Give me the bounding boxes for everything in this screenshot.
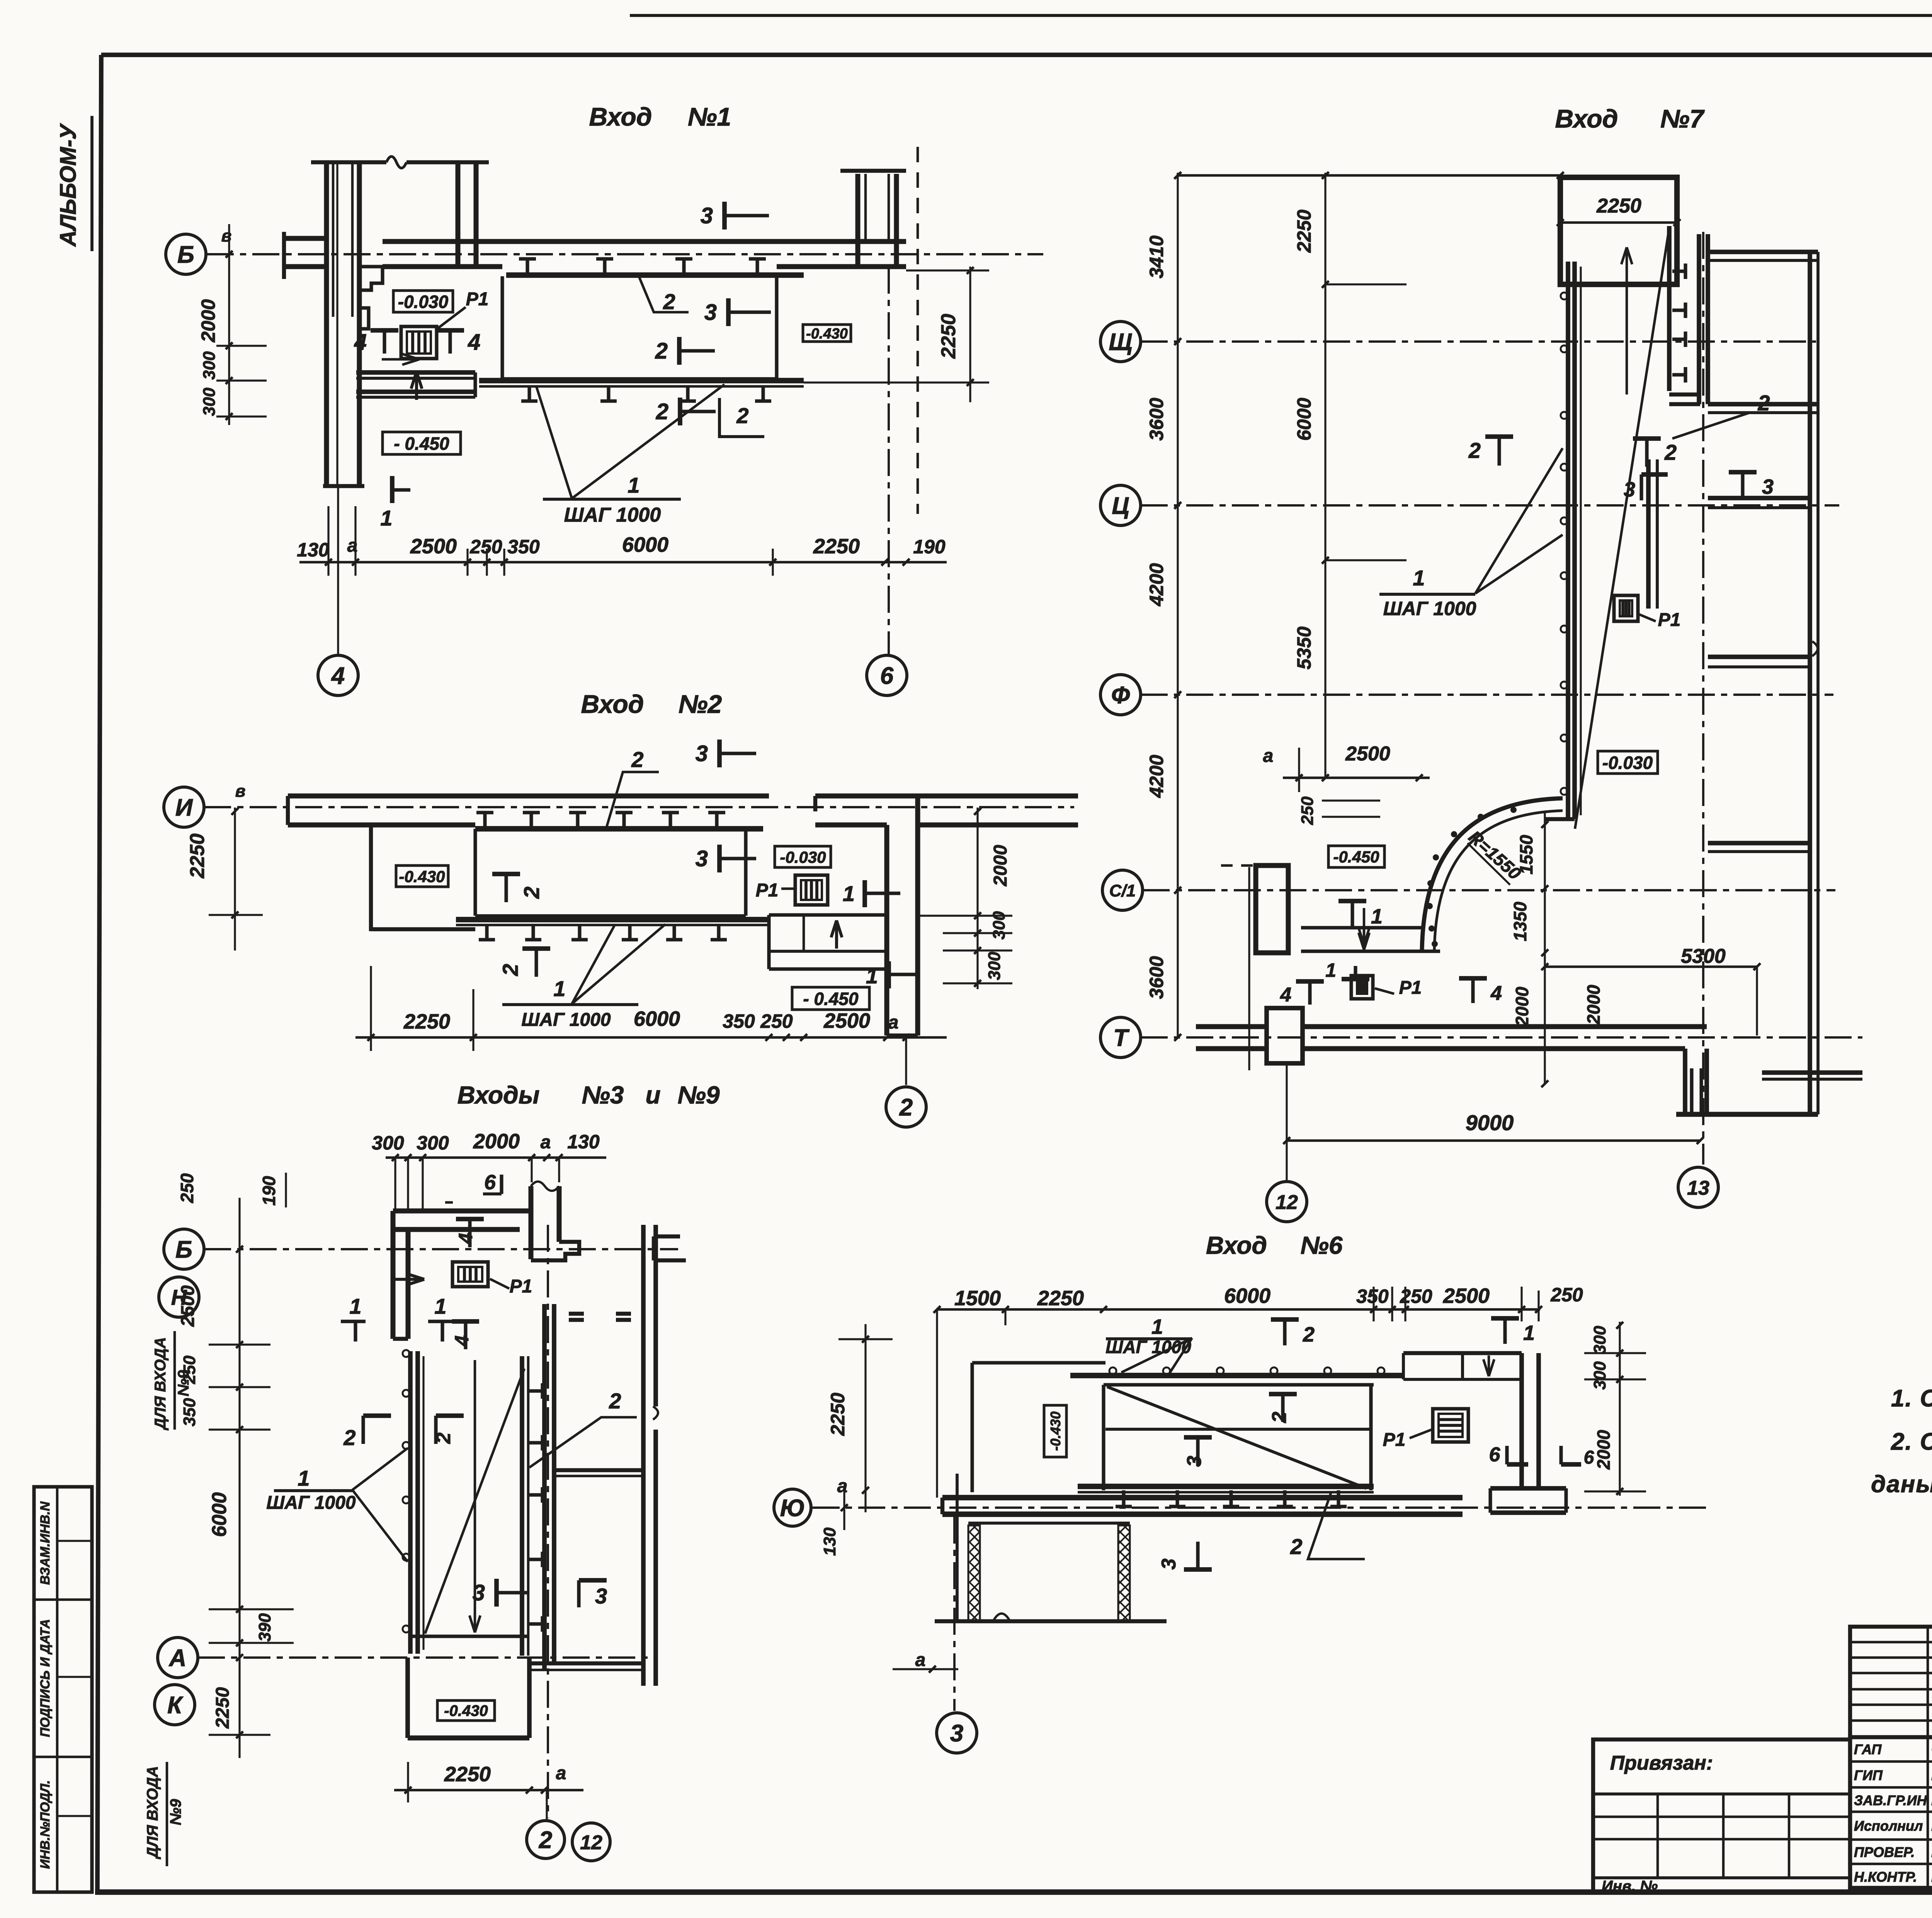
svg-text:2250: 2250	[213, 1687, 233, 1729]
svg-text:2: 2	[899, 1094, 913, 1121]
section 4 and P1 at bottom (Вход 7)	[1308, 981, 1311, 1005]
down arrow (Вход 7)	[1363, 908, 1366, 945]
axis 13 vertical (Вход 7)	[1702, 232, 1704, 1165]
frame border	[101, 53, 1932, 57]
svg-text:12: 12	[1276, 1191, 1298, 1214]
svg-text:1: 1	[866, 964, 878, 988]
svg-text:-0.030: -0.030	[1602, 753, 1653, 773]
section mark 1 lower (Вход 1)	[390, 476, 395, 503]
porch slab (Вход 2)	[473, 829, 477, 916]
grid circle Б	[166, 234, 206, 274]
svg-text:ГАП: ГАП	[1854, 1741, 1882, 1757]
svg-text:350: 350	[723, 1010, 755, 1032]
wall stub horizontals (Входы 3/9)	[554, 1468, 643, 1472]
svg-text:250: 250	[177, 1173, 197, 1203]
svg-text:2000: 2000	[1512, 986, 1532, 1027]
svg-text:2250: 2250	[1293, 209, 1315, 253]
axis Б line (Входы 3/9)	[204, 1248, 678, 1250]
svg-text:3: 3	[1762, 475, 1774, 498]
svg-text:Вход: Вход	[1206, 1231, 1267, 1259]
left beam (Входы 3/9)	[408, 1351, 413, 1654]
svg-text:2: 2	[1290, 1534, 1302, 1559]
axis Б line	[207, 253, 1043, 255]
svg-text:2000: 2000	[197, 299, 219, 342]
svg-text:-0.450: -0.450	[1333, 848, 1379, 866]
dim 9000 (Вход 7)	[1287, 1139, 1700, 1142]
svg-text:Исполнил: Исполнил	[1854, 1818, 1923, 1834]
entrance arrow right (Вход 1)	[382, 358, 419, 361]
svg-text:2: 2	[736, 403, 748, 428]
wall along Ю (Вход 6)	[942, 1495, 1463, 1500]
svg-text:2000: 2000	[1583, 985, 1604, 1025]
svg-text:a: a	[347, 536, 358, 556]
svg-text:4: 4	[455, 1233, 476, 1244]
svg-text:4: 4	[468, 330, 480, 355]
svg-text:1: 1	[349, 1294, 361, 1318]
level box -0.030 (Вход 7)	[1598, 751, 1658, 774]
svg-text:2500: 2500	[1443, 1284, 1490, 1308]
svg-text:2: 2	[539, 1827, 552, 1853]
svg-text:Р1: Р1	[1383, 1430, 1406, 1450]
right landing (Вход 6)	[1403, 1351, 1522, 1355]
svg-text:5350: 5350	[1293, 626, 1315, 669]
section mark 2 lower-left (Вход 2)	[534, 949, 538, 977]
canopy (Вход 7)	[1560, 177, 1677, 284]
svg-text:2: 2	[1303, 1323, 1315, 1346]
svg-text:a: a	[837, 1476, 848, 1496]
svg-text:№9: №9	[678, 1081, 720, 1109]
diagonal (Вход 7)	[1575, 228, 1669, 829]
svg-text:2: 2	[343, 1425, 355, 1450]
svg-text:ИНВ.№ПОДЛ.: ИНВ.№ПОДЛ.	[38, 1780, 53, 1869]
section mark 3 upper (Вход 2)	[717, 740, 722, 767]
svg-text:130: 130	[820, 1527, 839, 1556]
svg-text:2: 2	[631, 747, 643, 772]
right beam (Вход 7)	[1667, 226, 1672, 391]
svg-text:13: 13	[1687, 1177, 1709, 1199]
grid circles 2 and 12 (Входы 3/9)	[546, 1790, 548, 1821]
svg-text:a: a	[541, 1132, 551, 1153]
section mark 1 right (Вход 2)	[862, 880, 867, 907]
level box -0.430 vertical (Вход 6)	[1044, 1405, 1066, 1457]
svg-text:Ю: Ю	[780, 1495, 805, 1522]
svg-text:2. Сечение 6-6 и спецификация: 2. Сечение 6-6 и спецификация элементов …	[1891, 1428, 1932, 1455]
grid circle 2 (Вход 2)	[905, 1037, 907, 1085]
upper thin wall line (Вход 6)	[972, 1361, 1105, 1364]
bottom dimension line (Вход 2)	[355, 1036, 947, 1039]
svg-text:2: 2	[656, 399, 668, 424]
svg-text:4200: 4200	[1146, 563, 1167, 606]
svg-text:-0.430: -0.430	[444, 1702, 488, 1719]
axis Ф line	[1141, 694, 1833, 696]
svg-text:3: 3	[595, 1584, 607, 1608]
right T-wall (Вход 6)	[1519, 1353, 1524, 1488]
svg-text:1: 1	[843, 881, 855, 906]
svg-text:ШАГ 1000: ШАГ 1000	[521, 1010, 611, 1030]
svg-text:1: 1	[1523, 1321, 1535, 1345]
lower beam (Вход 2)	[456, 917, 769, 922]
svg-text:Р1: Р1	[756, 880, 779, 901]
grate P1 (Входы 3/9)	[452, 1262, 488, 1287]
svg-text:1: 1	[380, 506, 392, 530]
right dim chain (Вход 2)	[976, 808, 978, 989]
title block привязан box	[1593, 1739, 1850, 1892]
svg-text:Вход: Вход	[1555, 104, 1618, 133]
grid circle Т (7)	[1100, 1017, 1141, 1058]
section mark 4 right (Вход 1)	[436, 328, 464, 333]
grid circle 4 (Вход 1)	[337, 486, 339, 654]
canopy slab outline (Вход 1)	[500, 276, 504, 379]
axis Т line (7)	[1141, 1036, 1862, 1039]
svg-text:6: 6	[1489, 1444, 1501, 1466]
svg-text:2: 2	[1664, 440, 1677, 464]
section mark 2 lower (Вход 1)	[678, 398, 682, 425]
svg-text:350: 350	[180, 1398, 199, 1427]
pilaster stubs (Входы 3/9)	[569, 1312, 584, 1316]
axis А line (Входы 3/9)	[198, 1656, 651, 1659]
svg-text:2: 2	[432, 1432, 455, 1444]
axis 2 vertical (Входы 3/9)	[547, 1225, 549, 1818]
svg-text:3: 3	[473, 1580, 485, 1605]
svg-text:4: 4	[354, 330, 367, 355]
svg-text:2250: 2250	[827, 1393, 849, 1436]
svg-text:2: 2	[609, 1389, 621, 1413]
diagonal (Вход 6)	[1107, 1387, 1366, 1488]
svg-text:2000: 2000	[1594, 1430, 1614, 1470]
section marks 2 (Вход 7)	[1497, 437, 1501, 466]
svg-text:300: 300	[990, 911, 1009, 940]
svg-text:3: 3	[701, 203, 713, 228]
svg-text:3: 3	[1624, 478, 1635, 501]
svg-text:2500: 2500	[1345, 743, 1390, 765]
svg-text:№9: №9	[167, 1799, 184, 1825]
outer dim chain (Вход 7)	[1177, 173, 1179, 1037]
wall along И (Вход 2)	[288, 794, 769, 799]
level box -0.450 (Вход 7)	[1328, 846, 1384, 867]
bottom line of porch (Входы 3/9)	[410, 1634, 529, 1638]
svg-text:- 0.450: - 0.450	[394, 434, 449, 454]
svg-text:a: a	[888, 1012, 899, 1033]
svg-text:1: 1	[1325, 959, 1336, 981]
grate P1 (Вход 1)	[401, 326, 437, 359]
svg-text:2500: 2500	[178, 1285, 198, 1327]
svg-text:4: 4	[1490, 982, 1502, 1005]
right dim 2250 (Вход 1)	[969, 267, 971, 402]
grid circle А (Входы 3/9)	[158, 1637, 198, 1678]
svg-text:ДЛЯ ВХОДА: ДЛЯ ВХОДА	[144, 1766, 161, 1860]
tick line at 736	[1325, 283, 1406, 285]
svg-text:-0.430: -0.430	[806, 326, 848, 342]
svg-text:2250: 2250	[813, 535, 860, 558]
svg-text:С/1: С/1	[1109, 881, 1136, 900]
left margin stamp boxes	[34, 1487, 92, 1892]
svg-text:300: 300	[200, 388, 219, 416]
svg-text:ШАГ 1000: ШАГ 1000	[266, 1493, 356, 1513]
svg-text:Инв. №: Инв. №	[1602, 1878, 1658, 1895]
svg-text:Щ: Щ	[1109, 329, 1132, 355]
svg-text:№7: №7	[1660, 104, 1705, 133]
svg-text:ВЗАМ.ИНВ.N: ВЗАМ.ИНВ.N	[38, 1501, 53, 1585]
beam with dots (Вход 6)	[1070, 1373, 1403, 1378]
svg-text:3600: 3600	[1146, 398, 1167, 440]
middle line with arrow (Входы 3/9)	[474, 1360, 476, 1632]
section mark 1 lower (Вход 7)	[1354, 966, 1357, 979]
svg-text:6000: 6000	[1293, 398, 1315, 440]
svg-text:4: 4	[1280, 984, 1291, 1006]
svg-text:ШАГ 1000: ШАГ 1000	[564, 504, 661, 526]
svg-text:-0.030: -0.030	[398, 292, 449, 312]
left wall below porch (Вход 2)	[369, 825, 373, 931]
axis-Б left dim line	[228, 224, 230, 425]
svg-text:4: 4	[331, 663, 345, 689]
level box -0.030 (Вход 2)	[775, 846, 831, 867]
svg-text:АЛЬБОМ-У: АЛЬБОМ-У	[56, 123, 81, 247]
top dimension line (Входы 3/9)	[386, 1156, 606, 1159]
hidden dashed line right	[917, 147, 919, 514]
grid circle Щ	[1100, 321, 1141, 362]
wall column on axis Б (Вход 1)	[324, 162, 329, 486]
svg-text:-0.430: -0.430	[1048, 1411, 1063, 1451]
axis Щ line	[1141, 340, 1816, 343]
section mark T2 (Вход 2)	[504, 874, 508, 902]
wall stub left of column	[284, 236, 327, 241]
section mark Т3 right (Вход 7)	[1741, 472, 1744, 498]
grid circle 12 (Вход 7)	[1267, 1182, 1307, 1222]
right rooms walls (Вход 7)	[1697, 234, 1701, 404]
svg-text:ГИП: ГИП	[1854, 1767, 1883, 1783]
upper wall pier at x1160	[456, 162, 461, 267]
svg-text:ДЛЯ ВХОДА: ДЛЯ ВХОДА	[152, 1337, 169, 1431]
svg-text:250: 250	[760, 1010, 793, 1032]
section marks 4 upper (Входы 3/9)	[468, 1219, 471, 1247]
svg-text:даны на листе КЖО-27.: даны на листе КЖО-27.	[1871, 1471, 1932, 1498]
wall notch right of column	[359, 267, 383, 290]
svg-text:300: 300	[417, 1132, 449, 1154]
svg-text:2250: 2250	[937, 314, 960, 359]
svg-text:2: 2	[519, 886, 544, 899]
grid circle И	[164, 787, 204, 827]
svg-text:3: 3	[696, 846, 708, 871]
axis Ю	[813, 1507, 1708, 1509]
grid circle Б (Входы 3/9)	[164, 1229, 204, 1269]
svg-text:А: А	[168, 1645, 187, 1671]
svg-text:a: a	[1263, 746, 1274, 766]
svg-text:Р1: Р1	[466, 289, 489, 309]
svg-text:250: 250	[180, 1355, 199, 1384]
grid circle 13 (Вход 7)	[1678, 1167, 1718, 1207]
axis И line	[204, 806, 1074, 808]
svg-text:6000: 6000	[208, 1492, 231, 1537]
svg-text:2: 2	[1268, 1411, 1291, 1423]
title block small grid	[1850, 1627, 1932, 1737]
svg-text:250: 250	[1298, 796, 1317, 825]
left dim 2250 (Вход 2)	[234, 808, 236, 950]
svg-text:a: a	[915, 1650, 926, 1670]
svg-text:2500: 2500	[410, 535, 457, 558]
room below with hatched walls (Вход 6)	[956, 1474, 959, 1621]
svg-text:ШАГ 1000: ШАГ 1000	[1105, 1337, 1191, 1357]
svg-text:3: 3	[1158, 1558, 1180, 1569]
wall along Т (Вход 7)	[1196, 1024, 1267, 1029]
porch (Вход 6)	[1104, 1383, 1374, 1386]
grid circle К (Входы 3/9)	[155, 1685, 195, 1725]
wall along И right part (Вход 2)	[815, 794, 1078, 799]
svg-text:Б: Б	[177, 241, 194, 268]
svg-text:350: 350	[1356, 1285, 1389, 1307]
section mark Т1 (Вход 7)	[1350, 901, 1354, 927]
svg-text:3: 3	[1183, 1456, 1206, 1467]
main wall along Б	[383, 239, 906, 244]
svg-text:6000: 6000	[622, 533, 668, 556]
svg-text:ПОДПИСЬ И ДАТА: ПОДПИСЬ И ДАТА	[38, 1619, 53, 1737]
svg-text:300: 300	[1590, 1326, 1609, 1354]
svg-text:6: 6	[1584, 1447, 1594, 1468]
svg-text:ЗАВ.ГР.ИН: ЗАВ.ГР.ИН	[1854, 1792, 1927, 1808]
svg-text:Р1: Р1	[1399, 978, 1422, 998]
pier cross on Т (Вход 7)	[1267, 1008, 1303, 1063]
svg-text:2250: 2250	[1596, 195, 1641, 217]
section mark 4 mid (Входы 3/9)	[464, 1321, 467, 1349]
entry steps lower-left (Вход 1)	[356, 370, 475, 375]
svg-text:№3: №3	[582, 1081, 624, 1109]
svg-text:300: 300	[200, 351, 219, 380]
section mark 2 mid (Вход 1)	[677, 337, 682, 365]
svg-text:ПРОВЕР.: ПРОВЕР.	[1854, 1844, 1915, 1860]
svg-text:Р1: Р1	[510, 1276, 532, 1297]
section Т1 (Вход 6)	[1503, 1318, 1507, 1344]
bottom dimension line (Вход 1)	[299, 561, 947, 564]
svg-text:1: 1	[1371, 905, 1383, 928]
svg-text:Вход: Вход	[581, 690, 644, 718]
svg-text:И: И	[175, 794, 193, 821]
level box -0.030 (Вход 1)	[393, 291, 453, 312]
svg-text:6: 6	[880, 663, 894, 689]
tick line at 1450	[1325, 559, 1406, 561]
right pier with break (Входы 3/9)	[529, 1186, 534, 1259]
left pier (Вход 7)	[1256, 865, 1288, 953]
right wall corner (Вход 2)	[884, 825, 889, 1036]
svg-text:2250: 2250	[186, 833, 209, 879]
entrance arrow up (Вход 2)	[835, 920, 838, 949]
svg-text:1: 1	[553, 976, 565, 1001]
grate P1 (Вход 6)	[1433, 1409, 1468, 1442]
lower landing (Входы 3/9)	[405, 1658, 410, 1738]
svg-text:3: 3	[696, 741, 708, 766]
svg-text:2250: 2250	[444, 1763, 491, 1786]
sheet top scan line	[630, 14, 1932, 17]
svg-text:2: 2	[663, 289, 675, 314]
svg-text:Ф: Ф	[1111, 682, 1130, 709]
section Т3 rotated (Вход 6)	[1196, 1437, 1199, 1466]
svg-text:2500: 2500	[823, 1009, 870, 1032]
left beam (Вход 7)	[1566, 262, 1570, 819]
level box -0.450 (Вход 1)	[383, 432, 461, 454]
bottom right walls (Вход 7)	[1683, 1049, 1687, 1113]
svg-text:190: 190	[259, 1176, 279, 1206]
svg-text:6: 6	[484, 1171, 496, 1194]
section 2 rotated (Вход 6)	[1281, 1394, 1284, 1422]
far right wall (Входы 3/9)	[641, 1225, 646, 1686]
svg-text:и: и	[645, 1081, 660, 1109]
anchors below porch (Вход 6)	[1122, 1490, 1125, 1507]
svg-text:300: 300	[372, 1132, 404, 1154]
svg-text:300: 300	[985, 952, 1004, 980]
bottom dimension (Входы 3/9)	[394, 1789, 583, 1792]
section mark 1 lower (Вход 2)	[886, 961, 891, 988]
svg-text:№1: №1	[688, 102, 731, 131]
grate P1 (Вход 7)	[1614, 595, 1638, 621]
diagonal (Входы 3/9)	[425, 1369, 524, 1634]
axis С/1 line	[1143, 889, 1835, 891]
svg-text:-0.430: -0.430	[399, 867, 445, 886]
svg-text:3: 3	[704, 300, 717, 325]
svg-text:- 0.450: - 0.450	[803, 989, 859, 1009]
grate P1 (Вход 2)	[795, 875, 828, 905]
svg-text:250: 250	[469, 536, 502, 558]
svg-text:3410: 3410	[1146, 235, 1167, 278]
canopy beam with I-beams (Вход 1)	[506, 272, 804, 278]
top dim line (Вход 7)	[1178, 174, 1560, 177]
section 3 mark + Т3 (Входы 3/9)	[494, 1579, 499, 1607]
svg-text:1500: 1500	[954, 1287, 1001, 1310]
svg-text:300: 300	[1590, 1361, 1609, 1390]
level box -0.450 (Вход 2)	[792, 987, 869, 1010]
svg-text:Т: Т	[1113, 1025, 1130, 1051]
svg-text:1: 1	[298, 1466, 310, 1490]
svg-text:3600: 3600	[1146, 956, 1167, 999]
svg-text:Н.КОНТР.: Н.КОНТР.	[1854, 1869, 1917, 1885]
svg-text:Входы: Входы	[457, 1081, 540, 1109]
grid circle Ф	[1100, 675, 1141, 715]
svg-text:К: К	[167, 1692, 184, 1719]
svg-text:ШАГ 1000: ШАГ 1000	[1383, 598, 1476, 619]
grid circle 6 (Вход 1)	[888, 267, 890, 654]
right beam (Входы 3/9)	[520, 1356, 524, 1656]
level box -0.430 (Входы 3/9)	[437, 1700, 495, 1721]
svg-text:190: 190	[913, 536, 946, 558]
entry landing right (Вход 2)	[769, 913, 887, 916]
grid circle Ю	[774, 1489, 811, 1526]
grid circle Н (Входы 3/9)	[159, 1277, 199, 1317]
svg-text:№6: №6	[1301, 1231, 1343, 1259]
right dim chain (Вход 6)	[1619, 1322, 1621, 1496]
top dim line (Вход 6)	[937, 1308, 1540, 1311]
svg-text:Б: Б	[175, 1236, 192, 1263]
right pier wall	[855, 174, 861, 267]
section mark 4 left (Вход 1)	[371, 328, 398, 333]
wall step below canopy right (Вход 7)	[1669, 393, 1700, 396]
svg-text:1: 1	[1151, 1315, 1163, 1338]
svg-text:9000: 9000	[1466, 1110, 1514, 1135]
svg-text:2: 2	[655, 338, 668, 364]
svg-text:Ц: Ц	[1112, 493, 1129, 519]
svg-text:1. Сечения 1-1, 2-2, 3-3, 4-4: 1. Сечения 1-1, 2-2, 3-3, 4-4 даны на ли…	[1891, 1385, 1932, 1412]
section mark 3 mid (Вход 1)	[726, 298, 731, 326]
entrance arrow right (Входы 3/9)	[395, 1278, 424, 1281]
detail box 2 (Вход 1)	[719, 398, 764, 437]
entrance arrow up (Вход 1)	[415, 372, 418, 400]
svg-text:3: 3	[950, 1720, 963, 1747]
level box -0.430 (Вход 1)	[803, 325, 851, 342]
title block names table	[1850, 1737, 1932, 1888]
svg-text:1350: 1350	[1510, 901, 1530, 941]
svg-text:-0.030: -0.030	[780, 848, 826, 866]
left dim chain (Входы 3/9)	[238, 1198, 240, 1758]
right wall 1 (Входы 3/9)	[542, 1304, 547, 1671]
svg-text:2000: 2000	[990, 845, 1011, 886]
svg-text:1: 1	[434, 1294, 446, 1318]
section 3 rotated (Вход 6)	[1196, 1542, 1199, 1569]
